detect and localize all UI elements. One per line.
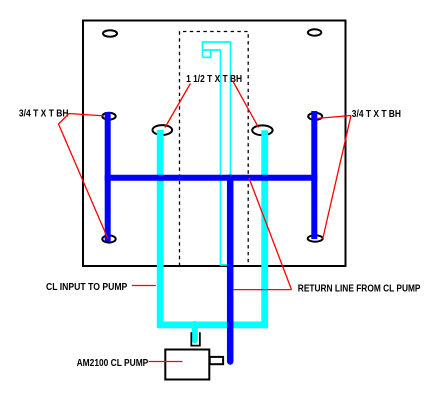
blue right vertical bar <box>311 111 317 239</box>
leader CL input <box>132 285 156 287</box>
hole right bar bottom <box>308 235 323 241</box>
tank panel (main square) <box>83 21 346 267</box>
hole left bar top <box>102 113 115 120</box>
fitting tube inner wall and down pipe wall <box>203 50 229 265</box>
svg-text:CL INPUT TO PUMP: CL INPUT TO PUMP <box>46 282 128 293</box>
hole left bar bottom <box>102 235 115 242</box>
svg-text:AM2100 CL PUMP: AM2100 CL PUMP <box>77 358 149 369</box>
hole right bar top <box>308 113 322 120</box>
dashed region outline <box>180 32 249 267</box>
leader return horizontal <box>234 289 292 291</box>
fitting nozzle end cap <box>203 50 211 57</box>
leader right 3/4 to bottom hole <box>323 116 351 239</box>
leader pump <box>149 361 183 363</box>
hole left center (cyan) <box>153 125 173 135</box>
pump body <box>165 350 209 380</box>
pump outlet box <box>210 357 223 364</box>
hole TR corner <box>308 29 321 35</box>
blue left vertical bar <box>105 112 111 242</box>
leader left 3/4 to top hole <box>69 114 104 116</box>
blue return line (center vertical) <box>227 178 234 362</box>
leader 1.5in left <box>165 84 190 128</box>
svg-text:3/4 T X T BH: 3/4 T X T BH <box>19 109 69 120</box>
hole TL corner <box>103 30 117 37</box>
pump inlet stub outline <box>191 332 200 345</box>
cyan suction loop (CL input line) <box>160 130 265 325</box>
1-1/2 inch fitting tube outline (thin cyan) outer wall <box>203 42 231 176</box>
hole right center (cyan) <box>252 125 272 135</box>
svg-text:RETURN LINE FROM CL PUMP: RETURN LINE FROM CL PUMP <box>298 284 421 295</box>
leader left 3/4 elbow <box>59 114 109 240</box>
blue manifold horizontal bar <box>105 175 318 181</box>
cyan drop into pump stub <box>192 324 198 340</box>
leader right 3/4 to top hole <box>318 116 352 119</box>
leader return diagonal <box>249 178 292 290</box>
svg-text:3/4 T X T BH: 3/4 T X T BH <box>352 109 401 120</box>
leader 1.5in right <box>233 81 259 128</box>
